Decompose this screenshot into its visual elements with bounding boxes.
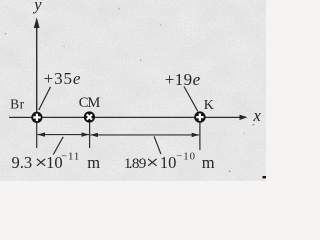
y-axis line	[36, 26, 38, 114]
y-axis arrowhead	[34, 17, 40, 28]
charge symbol Br (plus in filled circle)	[31, 112, 42, 123]
paper background	[0, 0, 266, 181]
svg-text:m: m	[202, 153, 215, 172]
paper scan noise	[0, 0, 266, 181]
svg-text:Br: Br	[10, 97, 25, 112]
charge symbol K (plus in filled circle)	[194, 111, 205, 122]
distance label 9.3e-11 m	[12, 150, 101, 172]
leader line from +19e to K charge	[184, 87, 198, 112]
extension line below Br	[36, 121, 38, 148]
svg-text:y: y	[32, 0, 42, 14]
x-axis arrowhead	[240, 115, 248, 120]
svg-text:−11: −11	[61, 150, 80, 162]
x-axis line	[9, 116, 241, 118]
svg-text:1.89: 1.89	[124, 155, 146, 172]
leader line from 9.3e-11 label	[53, 137, 63, 155]
svg-text:K: K	[204, 98, 214, 113]
svg-text:m: m	[87, 153, 100, 172]
charge symbol CM (cross in filled circle)	[84, 111, 95, 122]
svg-text:−10: −10	[176, 150, 196, 162]
stray printed mark bottom-right corner	[263, 176, 267, 178]
extension line below K	[199, 121, 201, 150]
svg-text:9.3: 9.3	[12, 153, 33, 172]
leader line from 1.89e-10 label	[154, 136, 161, 154]
svg-text:10: 10	[160, 153, 177, 172]
distance label 1.89e-10 m	[124, 150, 215, 172]
svg-text:+19e: +19e	[165, 70, 201, 89]
leader line from +35e to Br charge	[39, 87, 51, 110]
svg-text:+35e: +35e	[44, 69, 81, 88]
svg-text:CM: CM	[79, 95, 101, 111]
extension line below CM	[89, 121, 91, 148]
svg-text:x: x	[253, 106, 262, 125]
scan specks	[5, 8, 255, 172]
dimension line CM to K	[90, 134, 199, 136]
dimension line Br to CM	[38, 134, 90, 136]
